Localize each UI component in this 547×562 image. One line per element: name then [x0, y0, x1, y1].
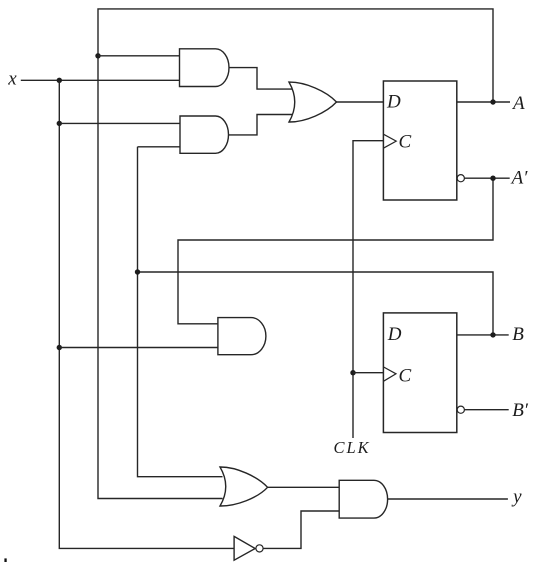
wire x input to AND1 lower input: [21, 79, 180, 81]
clock triangle of FF2: [383, 367, 396, 381]
svg-text:C: C: [399, 365, 412, 386]
node x to AND2 junction: [57, 121, 62, 126]
wire A feedback: from node A up, across top, down left column to OR2 lower input: [98, 9, 493, 499]
bubble on FF1 complement output: [457, 175, 464, 182]
svg-text:B′: B′: [512, 400, 529, 421]
wire CLK vertical to FF1 C input: [353, 141, 383, 438]
wire CLK to FF2 C input: [353, 372, 383, 374]
bubble on FF2 complement output: [457, 406, 464, 413]
wire x vertical down left side to inverter input: [59, 80, 234, 548]
wire AND2 top input: [59, 122, 180, 124]
svg-text:C: C: [399, 132, 412, 153]
inverter G6 (x'): [234, 536, 255, 560]
stray mark bottom left: [4, 558, 6, 562]
wire AND2 output to OR1 lower input: [229, 115, 293, 135]
wire A' output: [464, 177, 509, 179]
node A': [490, 176, 495, 181]
svg-text:A′: A′: [510, 168, 529, 189]
bubble of inverter: [256, 545, 263, 552]
node B feedback junction: [135, 269, 140, 274]
svg-text:D: D: [387, 324, 402, 345]
wire B output: [457, 334, 509, 336]
wire OR2 output to AND4 upper input: [268, 486, 340, 488]
wire AND2 lower input: [138, 146, 181, 148]
flip-flop FF1 (A) body: [383, 81, 456, 200]
and-gate G2 (B·x): [180, 116, 228, 153]
wire OR1 output to FF1 D input: [337, 101, 384, 103]
wire AND1 top input: [98, 55, 180, 57]
wire x to AND3 lower input: [59, 347, 218, 349]
flip-flop FF2 (B) body: [383, 313, 456, 433]
node x to AND3 junction: [57, 345, 62, 350]
svg-text:CLK: CLK: [334, 438, 371, 457]
node AND1 top input junction: [95, 53, 100, 58]
or-gate G3 (DA = Ax + Bx): [289, 82, 337, 122]
svg-text:D: D: [386, 92, 401, 113]
svg-text:y: y: [511, 486, 522, 507]
node A: [490, 99, 495, 104]
wire AND1 output to OR1 upper input: [229, 68, 292, 90]
node B: [490, 332, 495, 337]
node x junction: [57, 78, 62, 83]
and-gate G4 (DB = A'·x): [218, 318, 266, 355]
svg-text:x: x: [7, 68, 17, 89]
wire inverter output to AND4 lower input: [263, 511, 339, 548]
svg-text:A: A: [511, 93, 525, 114]
wire y output: [388, 498, 508, 500]
wire A' feedback: A' node down, across, down to AND3 top input: [178, 178, 493, 324]
wire B' output: [464, 409, 508, 411]
clock triangle of FF1: [383, 134, 396, 148]
wire B feedback: B node up, across, vertical through junction down to OR2 top input: [138, 272, 494, 335]
and-gate G1 (A·x): [180, 49, 229, 87]
node CLK junction at FF2: [350, 370, 355, 375]
or-gate G5 (A + B): [220, 467, 268, 506]
svg-text:B: B: [512, 324, 524, 345]
and-gate G7 (y = (A+B)·x'): [339, 480, 387, 518]
wire A output: [457, 101, 510, 103]
wire B feedback vertical: AND2 lower input down to OR2 upper input: [138, 147, 223, 477]
